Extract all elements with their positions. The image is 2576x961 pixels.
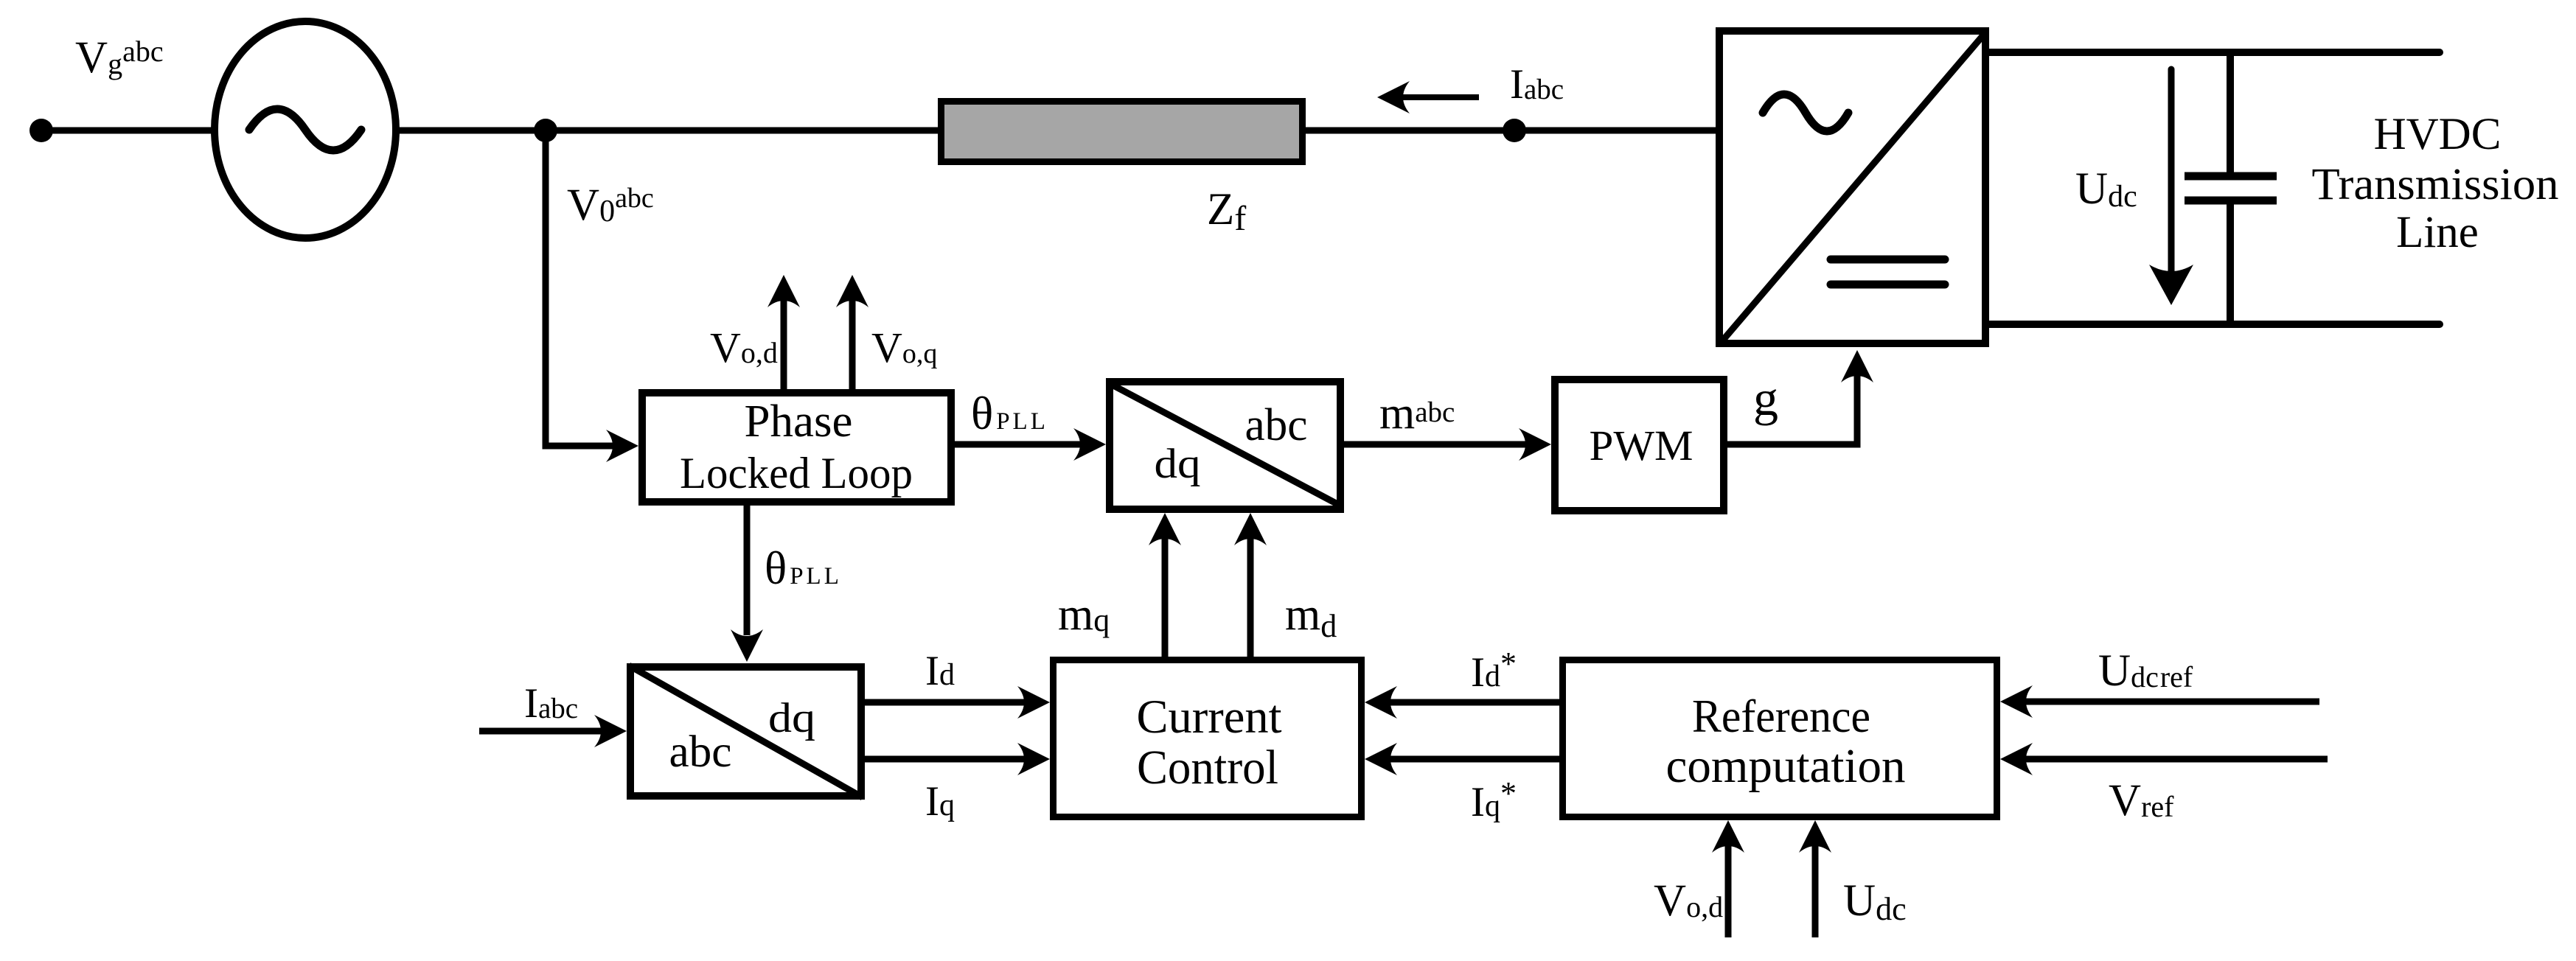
wire Vref input: [2024, 756, 2328, 763]
svg-text:dq: dq: [768, 695, 815, 741]
arrow Iabc current direction: [1402, 94, 1479, 100]
converter diagonal: [1721, 32, 1986, 343]
arrow Vo,d output: [781, 298, 787, 389]
svg-text:θPLL: θPLL: [971, 388, 1048, 439]
svg-text:computation: computation: [1666, 739, 1906, 793]
svg-text:abc: abc: [1245, 400, 1308, 450]
wire PLL theta out: [955, 441, 1082, 448]
arrow Vo,d into reference: [1725, 845, 1732, 937]
svg-text:Zf: Zf: [1207, 185, 1246, 238]
node converter input: [1503, 119, 1526, 142]
block PLL: [642, 393, 951, 502]
svg-text:dq: dq: [1155, 441, 1201, 487]
svg-text:Reference: Reference: [1692, 690, 1870, 742]
svg-text:Control: Control: [1137, 741, 1278, 794]
block abc to dq: [630, 667, 861, 796]
block PWM: [1555, 380, 1724, 511]
ac source Vg: [215, 21, 396, 238]
svg-text:Iq: Iq: [925, 778, 955, 825]
svg-text:Current: Current: [1137, 691, 1282, 744]
capacitor C1 top lead: [2227, 52, 2234, 172]
capacitor C1 bottom lead: [2227, 204, 2234, 324]
arrow Vo,q output: [849, 298, 856, 389]
svg-text:Iq*: Iq*: [1471, 775, 1517, 825]
arrow md up: [1247, 538, 1254, 657]
block dq to abc: [1110, 382, 1340, 509]
svg-text:abc: abc: [669, 727, 732, 777]
svg-text:Vref: Vref: [2109, 776, 2174, 825]
wire dq-abc to PWM: [1344, 441, 1528, 448]
capacitor C1 plates: [2185, 172, 2277, 181]
svg-text:Iabc: Iabc: [524, 680, 578, 727]
wire DC negative rail: [1988, 321, 2440, 328]
wire Udcref input: [2024, 699, 2319, 705]
converter U1 box: [1719, 31, 1985, 343]
svg-text:V0abc: V0abc: [567, 181, 654, 230]
svg-text:Transmission: Transmission: [2312, 160, 2559, 209]
svg-text:Id*: Id*: [1471, 646, 1517, 696]
wire DC positive rail: [1988, 49, 2440, 56]
impedance Zf: [941, 102, 1303, 162]
wire PLL theta down: [744, 506, 751, 635]
ac source sine glyph: [249, 109, 361, 150]
node left terminal: [29, 119, 53, 142]
svg-text:Vo,d: Vo,d: [710, 324, 778, 371]
svg-text:g: g: [1753, 370, 1778, 426]
svg-text:Udc: Udc: [1843, 876, 1907, 927]
svg-text:θPLL: θPLL: [765, 542, 842, 594]
svg-text:PWM: PWM: [1590, 422, 1693, 469]
svg-text:Vgabc: Vgabc: [75, 33, 164, 83]
wire Iq: [865, 756, 1026, 763]
wire V0 down to PLL input: [546, 130, 615, 446]
wire main AC bus: [41, 127, 1721, 134]
wire Iabc input: [479, 728, 603, 735]
svg-text:Id: Id: [925, 648, 955, 694]
svg-text:HVDC: HVDC: [2374, 110, 2502, 159]
wire Id star: [1388, 699, 1559, 706]
arrow Udc into reference: [1812, 845, 1819, 937]
block Reference computation: [1563, 660, 1997, 817]
converter DC symbol: [1831, 256, 1945, 264]
svg-text:Udc: Udc: [2075, 164, 2137, 214]
svg-text:Iabc: Iabc: [1510, 61, 1564, 108]
svg-text:Locked Loop: Locked Loop: [680, 449, 913, 497]
node V0 junction: [534, 119, 557, 142]
wire PWM g to converter: [1727, 375, 1857, 444]
svg-text:Line: Line: [2396, 208, 2479, 257]
svg-text:Phase: Phase: [745, 396, 853, 447]
block Current Control: [1054, 660, 1362, 817]
converter AC sine glyph: [1763, 94, 1848, 131]
arrow Udc voltage: [2168, 69, 2175, 276]
arrowhead into PLL: [606, 430, 638, 462]
wire Iq star: [1388, 756, 1559, 763]
svg-text:mabc: mabc: [1379, 388, 1455, 438]
arrow mq up: [1162, 538, 1169, 657]
svg-text:Vo,d: Vo,d: [1654, 876, 1723, 926]
svg-text:md: md: [1285, 590, 1337, 644]
svg-text:mq: mq: [1058, 590, 1110, 640]
svg-text:Vo,q: Vo,q: [871, 324, 937, 371]
wire Id: [865, 699, 1026, 706]
svg-text:Udcref: Udcref: [2098, 646, 2193, 696]
